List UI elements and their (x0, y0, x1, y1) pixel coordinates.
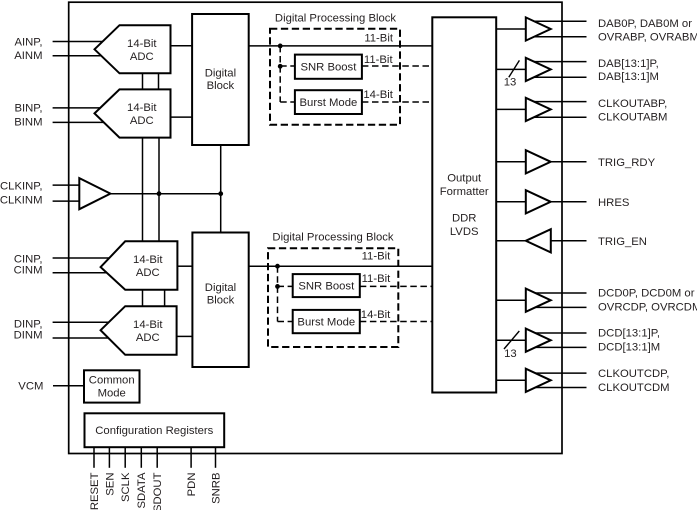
svg-text:14-Bit: 14-Bit (127, 38, 157, 50)
svg-text:ADC: ADC (136, 267, 160, 279)
buffer HRES (526, 190, 551, 213)
device boundary box (69, 2, 562, 453)
svg-text:DAB0P, DAB0M or: DAB0P, DAB0M or (598, 18, 692, 30)
svg-text:HRES: HRES (598, 197, 630, 209)
ADC A 14-Bit (95, 25, 171, 73)
svg-text:DCD[13:1]P,: DCD[13:1]P, (598, 328, 660, 340)
svg-text:SNR Boost: SNR Boost (300, 62, 357, 74)
svg-text:13: 13 (504, 76, 517, 88)
svg-text:11-Bit: 11-Bit (362, 251, 392, 263)
junction clock-ADC chain (157, 191, 162, 196)
buffer TRIG_RDY (526, 150, 551, 173)
wire CLKOUTAB out M (530, 116, 587, 118)
buffer TRIG_EN input (526, 229, 551, 252)
digital processing block 1 dashed boundary (270, 29, 400, 125)
wire DAB[13:1] out M (530, 76, 587, 78)
wire CLKOUTCD out M (530, 387, 587, 389)
wire CLKOUTCD out P (530, 372, 587, 374)
svg-text:DINM: DINM (14, 329, 43, 341)
wire tap vertical 2 (277, 266, 279, 321)
wire HRES in (496, 201, 526, 203)
wire SNR boost 2 in (278, 285, 293, 287)
buffer DAB[13:1] (526, 58, 551, 81)
wire ADC B-C right (158, 138, 160, 242)
svg-text:Digital Processing Block: Digital Processing Block (275, 12, 397, 24)
buffer DAB0 (526, 17, 551, 40)
wire clock horizontal (110, 193, 220, 195)
svg-text:DAB[13:1]P,: DAB[13:1]P, (598, 58, 659, 70)
wire ADC A-B right (158, 73, 160, 89)
svg-text:Digital Processing Block: Digital Processing Block (272, 232, 394, 244)
svg-text:SDATA: SDATA (136, 472, 148, 508)
svg-text:SCLK: SCLK (120, 472, 132, 502)
wire ADC D out (177, 335, 193, 337)
digital block 2 (192, 233, 248, 368)
svg-text:BINM: BINM (14, 116, 42, 128)
svg-text:CLKINP,: CLKINP, (0, 180, 43, 192)
pin PDN lead (190, 447, 192, 468)
wire SNR boost 1 out 11-bit (362, 65, 432, 67)
svg-text:TRIG_EN: TRIG_EN (598, 236, 647, 248)
buffer CLKOUTAB (526, 98, 551, 121)
svg-text:CLKOUTCDP,: CLKOUTCDP, (598, 368, 669, 380)
svg-text:PDN: PDN (186, 473, 198, 497)
wire DAB0 in (496, 28, 526, 30)
wire DCD0 out P (530, 292, 587, 294)
ADC D 14-Bit (101, 306, 177, 355)
wire VCM (53, 385, 84, 387)
configuration registers block (85, 413, 225, 447)
svg-text:DDR: DDR (452, 213, 476, 225)
svg-text:Mode: Mode (98, 387, 126, 399)
pin RESET lead (93, 447, 95, 468)
output formatter DDR LVDS (432, 17, 496, 392)
bus width slash CD (504, 331, 519, 349)
buffer DCD0 (526, 289, 551, 312)
digital block 1 (192, 14, 249, 145)
svg-text:CLKINM: CLKINM (0, 194, 43, 206)
wire BINP (53, 107, 106, 109)
wire DCD[13:1] in (496, 339, 526, 341)
wire burst mode 1 in (280, 101, 295, 103)
svg-text:ADC: ADC (136, 332, 160, 344)
svg-text:14-Bit: 14-Bit (127, 102, 157, 114)
wire CINM (53, 272, 112, 274)
wire CLKINP (53, 184, 80, 186)
wire SNR boost 1 in (280, 65, 295, 67)
svg-text:Block: Block (207, 80, 235, 92)
svg-text:LVDS: LVDS (450, 226, 479, 238)
junction SNR tap 1 (278, 64, 283, 69)
svg-text:CLKOUTCDM: CLKOUTCDM (598, 382, 670, 394)
svg-text:Output: Output (447, 173, 482, 185)
svg-text:11-Bit: 11-Bit (362, 273, 392, 285)
wire ADC A out (171, 45, 193, 47)
pin SDOUT lead (156, 447, 158, 468)
svg-text:13: 13 (504, 348, 517, 360)
svg-text:14-Bit: 14-Bit (133, 319, 163, 331)
svg-text:11-Bit: 11-Bit (364, 54, 394, 66)
bus width slash AB (509, 60, 520, 77)
svg-text:AINM: AINM (14, 50, 42, 62)
pin SNRB lead (215, 447, 217, 468)
svg-text:Digital: Digital (205, 67, 236, 79)
svg-text:SNRB: SNRB (210, 473, 222, 504)
wire ADC C out (177, 265, 192, 267)
wire ADC C-D right (164, 290, 166, 307)
svg-text:Digital: Digital (205, 282, 236, 294)
wire CLKOUTCD in (496, 379, 526, 381)
pin SCLK lead (124, 447, 126, 468)
wire burst mode 2 in (278, 321, 293, 323)
junction SNR tap 2 (275, 284, 280, 289)
junction bus 1 tap (278, 44, 283, 49)
svg-text:SNR Boost: SNR Boost (298, 281, 355, 293)
wire DINM (53, 337, 112, 339)
svg-text:ADC: ADC (130, 51, 154, 63)
pin SEN lead (108, 447, 110, 468)
wire DAB0 out M (530, 36, 587, 38)
svg-text:14-Bit: 14-Bit (133, 254, 163, 266)
svg-text:Formatter: Formatter (440, 186, 489, 198)
pin SDATA lead (140, 447, 142, 468)
wire ADC B-C left (142, 138, 144, 242)
buffer CLKOUTCD (526, 369, 551, 392)
ADC B 14-Bit (95, 89, 171, 137)
wire CLKOUTAB out P (530, 101, 587, 103)
svg-text:OVRABP, OVRABM: OVRABP, OVRABM (598, 31, 697, 43)
wire CINP (53, 257, 112, 259)
wire TRIG_EN in (551, 240, 587, 242)
wire digital block 1 to 2 (220, 145, 222, 233)
wire TRIG_EN out (496, 240, 526, 242)
junction bus 2 tap (275, 264, 280, 269)
wire DCD[13:1] out P (530, 332, 587, 334)
svg-text:Block: Block (207, 295, 235, 307)
SNR boost 1 (295, 55, 362, 79)
svg-text:Configuration Registers: Configuration Registers (95, 425, 213, 437)
svg-text:AINP,: AINP, (14, 37, 42, 49)
wire DAB0 out P (530, 20, 587, 22)
svg-text:DCD[13:1]M: DCD[13:1]M (598, 341, 660, 353)
svg-text:OVRCDP, OVRCDM: OVRCDP, OVRCDM (598, 302, 697, 314)
wire AINM (53, 55, 106, 57)
svg-text:DCD0P, DCD0M or: DCD0P, DCD0M or (598, 288, 695, 300)
wire DCD0 in (496, 299, 526, 301)
wire CLKINM (53, 200, 80, 202)
svg-text:ADC: ADC (130, 115, 154, 127)
buffer DCD[13:1] (526, 329, 551, 352)
junction clock-digital blocks (218, 191, 223, 196)
svg-text:CINP,: CINP, (14, 253, 43, 265)
wire HRES out (551, 201, 587, 203)
svg-text:TRIG_RDY: TRIG_RDY (598, 157, 656, 169)
svg-text:RESET: RESET (89, 472, 101, 510)
wire DCD[13:1] out M (530, 346, 587, 348)
wire TRIG_RDY in (496, 161, 526, 163)
wire DCD0 out M (530, 306, 587, 308)
SNR boost 2 (293, 274, 360, 297)
wire SNR boost 2 out 11-bit (360, 285, 433, 287)
wire TRIG_RDY out (551, 161, 587, 163)
svg-text:SEN: SEN (104, 473, 116, 496)
burst mode 2 (293, 310, 360, 333)
wire CLKOUTAB in (496, 108, 526, 110)
clock input buffer (79, 178, 110, 209)
wire burst mode 2 out 14-bit (360, 321, 433, 323)
wire ADC A-B left (142, 73, 144, 89)
svg-text:11-Bit: 11-Bit (364, 32, 394, 44)
svg-text:CLKOUTABM: CLKOUTABM (598, 111, 667, 123)
svg-text:14-Bit: 14-Bit (363, 89, 393, 101)
wire DINP (53, 321, 112, 323)
digital processing block 2 dashed boundary (268, 248, 398, 347)
wire 11-bit bus 1 (249, 45, 433, 47)
wire AINP (53, 41, 106, 43)
burst mode 1 (295, 90, 362, 114)
svg-text:VCM: VCM (18, 381, 43, 393)
wire DAB[13:1] in (496, 68, 526, 70)
wire DAB[13:1] out P (530, 61, 587, 63)
svg-text:14-Bit: 14-Bit (361, 309, 391, 321)
wire tap vertical 1 (279, 46, 281, 102)
svg-text:Burst Mode: Burst Mode (297, 317, 355, 329)
ADC C 14-Bit (101, 241, 178, 289)
wire ADC C-D left (142, 290, 144, 307)
wire BINM (53, 121, 106, 123)
common mode block (84, 370, 140, 402)
svg-text:Common: Common (89, 374, 135, 386)
wire burst mode 1 out 14-bit (362, 101, 432, 103)
svg-text:SDOUT: SDOUT (152, 472, 164, 510)
svg-text:Burst Mode: Burst Mode (300, 97, 358, 109)
svg-text:DAB[13:1]M: DAB[13:1]M (598, 71, 659, 83)
wire 11-bit bus 2 (249, 265, 433, 267)
svg-text:CINM: CINM (14, 265, 43, 277)
svg-text:BINP,: BINP, (14, 103, 42, 115)
wire ADC B out (171, 116, 193, 118)
svg-text:CLKOUTABP,: CLKOUTABP, (598, 98, 667, 110)
